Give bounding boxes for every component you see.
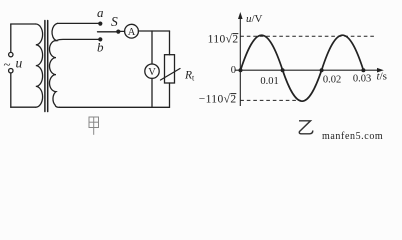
terminal circle: source top [9,52,13,56]
svg-text:A: A [128,27,136,38]
transformer core line right [47,21,49,112]
svg-text:0.03: 0.03 [353,74,371,85]
svg-text:−110√2: −110√2 [199,93,237,106]
svg-text:t/s: t/s [377,71,387,83]
wire: resistor branch bottom [169,83,171,107]
label: caption 甲 (drawn strokes) [89,117,99,135]
node: terminal a dot [98,22,102,26]
secondary coil [50,23,60,107]
wire: voltmeter branch bottom [151,78,153,107]
overline of sqrt2 bottom [230,93,236,95]
wire: source left vertical upper [10,24,12,52]
node: 0.02 crossing dot [320,68,324,72]
svg-text:~: ~ [4,57,11,72]
switch S blade [98,31,119,33]
wire: secondary tap to terminal b [56,39,100,40]
wire: resistor branch top [169,31,171,55]
wire: source left vertical lower [10,73,12,107]
svg-text:V: V [148,67,156,78]
wire: secondary top to terminal a [58,22,101,24]
ammeter A [125,24,139,38]
resistor Rt slash [161,69,181,81]
resistor Rt body [165,55,175,83]
svg-text:b: b [97,40,104,55]
wire: voltmeter branch top [151,31,153,64]
node: 0.01 crossing dot [281,68,285,72]
graph: horizontal axis t [235,69,381,71]
graph: dashed line at -110sqrt2 [240,99,301,101]
svg-text:manfen5.com: manfen5.com [322,131,383,142]
wire: switch to ammeter [118,30,124,32]
graph: dashed line at +110sqrt2 [240,35,375,37]
label: caption 乙 (drawn strokes) [299,121,313,134]
wire: primary top from source to coil [11,23,36,25]
svg-text:S: S [111,14,118,29]
graph: sine curve u(t) [241,35,364,101]
graph: horizontal axis arrowhead [377,68,384,73]
node: switch pivot dot [116,30,120,34]
node: terminal b dot [98,37,102,41]
wire: ammeter to right branch corner [138,30,169,32]
graph: vertical axis arrowhead [238,12,243,19]
svg-text:0: 0 [231,65,236,76]
voltmeter V [145,64,159,78]
svg-text:0.01: 0.01 [260,76,278,87]
node: origin dot [239,68,243,72]
svg-text:a: a [97,5,104,20]
wire: secondary bottom [60,106,170,108]
node: 0.03 end dot [361,68,365,72]
svg-text:110√2: 110√2 [208,33,239,46]
wire: primary bottom from source to coil [11,106,36,108]
transformer core line left [44,21,46,112]
svg-text:u: u [16,56,23,71]
primary coil [36,24,43,107]
graph: vertical axis u [239,15,241,107]
overline of sqrt2 top [232,33,238,35]
svg-text:0.02: 0.02 [323,75,341,86]
svg-text:u/V: u/V [246,13,263,25]
terminal circle: source bottom [9,69,13,73]
